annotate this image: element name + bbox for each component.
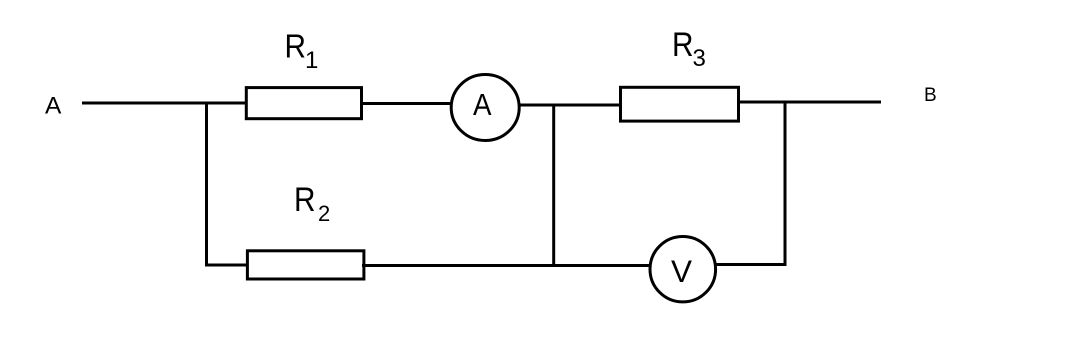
svg-text:B: B bbox=[924, 85, 937, 106]
resistor R1 bbox=[246, 88, 361, 119]
wire middle vertical junction bbox=[552, 104, 555, 268]
wire right vertical branch bbox=[784, 101, 787, 267]
wire left vertical branch bbox=[205, 102, 208, 267]
svg-text:3: 3 bbox=[693, 45, 706, 72]
wire from node A to R1 bbox=[82, 102, 247, 105]
svg-text:A: A bbox=[45, 92, 62, 119]
svg-text:2: 2 bbox=[318, 201, 330, 226]
wire bottom left to R2 bbox=[205, 264, 248, 267]
wire voltmeter to right branch bbox=[716, 263, 787, 266]
ammeter U1 bbox=[451, 75, 519, 141]
wire R3 to node B bbox=[739, 101, 882, 104]
wire R2 to voltmeter bbox=[362, 264, 650, 267]
wire ammeter to R3 bbox=[518, 104, 622, 107]
svg-text:R: R bbox=[285, 28, 307, 65]
voltmeter U2 bbox=[650, 237, 716, 302]
svg-text:V: V bbox=[671, 253, 692, 289]
svg-text:A: A bbox=[473, 87, 492, 122]
svg-text:1: 1 bbox=[305, 47, 318, 74]
svg-text:R: R bbox=[672, 26, 694, 64]
svg-text:R: R bbox=[294, 181, 316, 219]
wire R1 to ammeter bbox=[361, 102, 452, 105]
resistor R2 bbox=[247, 251, 364, 279]
resistor R3 bbox=[621, 87, 739, 121]
